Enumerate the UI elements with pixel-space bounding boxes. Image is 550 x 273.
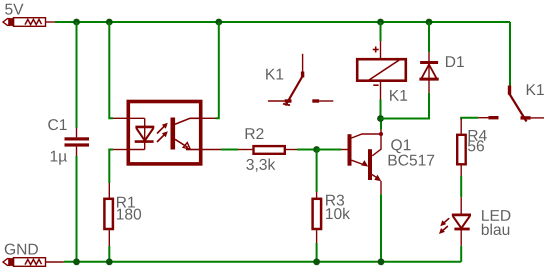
switch contact K1 middle <box>268 54 333 106</box>
label Q1 name <box>391 139 410 153</box>
label R2 name <box>246 128 264 139</box>
junction dot opto collector branch <box>215 19 222 26</box>
net GND label <box>5 244 38 255</box>
resistor R1 <box>104 199 113 229</box>
wire LED to ground rail <box>460 246 462 262</box>
label R4 value 56 <box>468 140 484 151</box>
label K1 right contact <box>446 56 464 67</box>
LED blau <box>452 197 471 246</box>
wire switch to R4 <box>461 118 478 120</box>
wire R1 to ground rail <box>108 246 110 262</box>
wire base node to R3 <box>316 150 318 193</box>
junction dot R1 bottom <box>106 258 113 265</box>
ground connector X2 (GND pinhead) <box>3 258 46 267</box>
wire R3 to ground rail <box>316 243 318 262</box>
junction dot R3 bottom <box>313 258 320 265</box>
wire Q1 emitter pin <box>380 181 382 194</box>
wire 5V pin stub <box>46 21 56 23</box>
wire opto emitter to R2 <box>221 149 238 151</box>
label D1 name <box>266 69 283 80</box>
LED light arrows <box>439 218 449 234</box>
wire bottom GND rail <box>64 261 461 263</box>
wire R1 top pin <box>108 183 110 198</box>
junction dot Q1 emitter bottom <box>378 258 385 265</box>
optocoupler U1 internal LED <box>128 118 154 149</box>
wire C1 top drop <box>76 22 78 128</box>
wire base node to Q1 <box>317 149 341 151</box>
relay K1 coil <box>357 41 406 100</box>
label Q1 value BC517 <box>389 155 435 166</box>
label R3 value 10k <box>326 208 350 219</box>
wire opto anode pin <box>113 117 128 119</box>
wire opto anode drop <box>109 22 113 118</box>
wire right K1 riser <box>509 22 511 86</box>
label R4 name <box>469 130 487 141</box>
optocoupler U1 box <box>128 102 200 164</box>
junction dot base node <box>313 146 320 153</box>
wire C1 bottom drop <box>76 156 78 262</box>
wire R1 bottom pin <box>108 230 110 246</box>
wire opto collector riser <box>216 22 219 118</box>
wire opto collector pin <box>203 117 216 119</box>
wire Q1 emitter to ground rail <box>380 194 382 262</box>
wire relay bottom to node <box>380 100 382 119</box>
label LED value blau <box>482 224 509 235</box>
transistor Q1 (darlington BC517) <box>348 132 384 181</box>
resistor R3 <box>313 199 322 229</box>
switch contact K1 right <box>478 86 544 122</box>
label K1 relay name <box>390 90 407 101</box>
wire relay top pin riser <box>380 22 382 41</box>
wire R4 to LED <box>460 176 462 197</box>
wire D1 top riser <box>428 22 430 52</box>
label R3 name <box>326 195 344 206</box>
label R1 name <box>117 197 135 208</box>
junction dot relay plus branch <box>377 19 384 26</box>
wire opto cathode to R1 <box>109 150 113 184</box>
net 5V label <box>5 4 23 15</box>
wire GND pin stub <box>46 261 64 263</box>
junction dot relay/diode node <box>377 115 384 122</box>
label K1 middle contact <box>527 84 544 95</box>
resistor R2 <box>238 146 297 154</box>
wire Q1 collector pin <box>380 130 382 135</box>
optocoupler U1 phototransistor <box>171 118 201 150</box>
wire R4 top pin <box>460 119 462 134</box>
wire opto cathode pin <box>113 149 128 151</box>
wire R3 top pin <box>316 192 318 198</box>
junction dot C1 bottom <box>73 258 80 265</box>
wire node to D1 <box>381 93 430 119</box>
label C1 value 1u <box>51 151 67 165</box>
label R1 value 180 <box>117 209 141 220</box>
diode D1 <box>419 52 438 93</box>
label R2 value 3,3k <box>246 158 275 171</box>
label LED name <box>482 210 510 221</box>
supply connector X1 (5V pinhead) <box>3 18 46 27</box>
optocoupler U1 light arrows <box>157 123 168 142</box>
wire opto emitter pin <box>203 149 222 151</box>
label C1 name <box>48 119 66 130</box>
wire R2 to base node <box>297 149 317 151</box>
junction dot C1 top <box>73 19 80 26</box>
wire Q1 base pin <box>341 149 348 151</box>
wire R4 bottom pin <box>460 166 462 177</box>
wire top 5V rail <box>55 21 510 23</box>
wire Q1 collector to relay node <box>380 119 382 130</box>
resistor R4 <box>457 135 466 165</box>
junction dot opto anode branch <box>106 19 113 26</box>
capacitor C1 <box>65 128 90 156</box>
junction dot D1 branch <box>426 19 433 26</box>
wire R3 bottom pin <box>316 230 318 243</box>
